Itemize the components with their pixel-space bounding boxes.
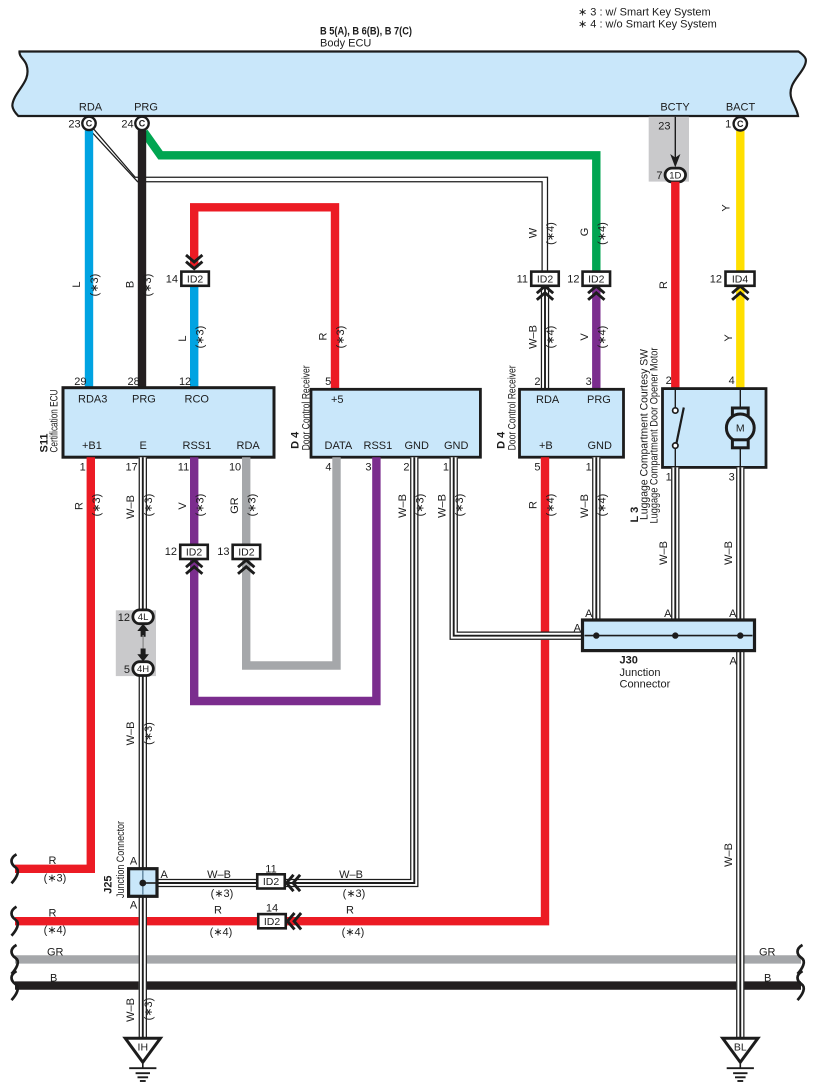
svg-text:W–B: W–B — [723, 541, 735, 565]
svg-text:E: E — [140, 440, 147, 452]
svg-text:ID4: ID4 — [732, 274, 749, 286]
svg-text:(∗3): (∗3) — [89, 274, 101, 297]
svg-text:R: R — [658, 281, 670, 289]
svg-text:14: 14 — [266, 903, 278, 915]
svg-text:3: 3 — [365, 461, 371, 473]
svg-text:Door Control Receiver: Door Control Receiver — [506, 365, 518, 450]
svg-text:W–B: W–B — [125, 998, 137, 1022]
svg-text:1: 1 — [666, 472, 672, 484]
connector ID2 14 (row) — [258, 903, 301, 930]
svg-text:R: R — [49, 907, 57, 919]
connector ID2 12 (mid) — [165, 545, 208, 559]
svg-text:1: 1 — [725, 119, 731, 131]
svg-text:RDA: RDA — [237, 440, 261, 452]
svg-text:3: 3 — [729, 472, 735, 484]
svg-text:∗ 3 : w/ Smart Key System: ∗ 3 : w/ Smart Key System — [578, 7, 711, 19]
svg-text:13: 13 — [217, 546, 229, 558]
wire R (*4) +B label — [528, 494, 558, 517]
svg-text:5: 5 — [325, 376, 331, 388]
svg-text:A: A — [574, 623, 582, 635]
svg-text:A: A — [585, 608, 593, 620]
svg-text:GND: GND — [405, 440, 430, 452]
svg-text:R: R — [73, 502, 85, 510]
svg-text:B: B — [125, 281, 137, 288]
svg-text:4: 4 — [729, 375, 735, 387]
svg-text:Y: Y — [723, 334, 735, 342]
svg-text:2: 2 — [666, 375, 672, 387]
svg-text:28: 28 — [128, 376, 140, 388]
svg-text:Door Control Receiver: Door Control Receiver — [300, 365, 312, 450]
svg-text:29: 29 — [74, 376, 86, 388]
svg-text:(∗4): (∗4) — [44, 925, 67, 937]
junction connector J25 — [103, 821, 169, 912]
svg-text:14: 14 — [166, 274, 178, 286]
wire W-B (*3) E to ground IH — [125, 457, 155, 1038]
svg-text:(∗3): (∗3) — [415, 494, 427, 517]
svg-text:(∗4): (∗4) — [597, 326, 609, 349]
Body ECU connector band — [12, 52, 806, 117]
pin 1 BACT connector C — [725, 101, 755, 130]
svg-text:L: L — [71, 281, 83, 287]
wire L (*3) blue to RDA3 — [71, 130, 101, 388]
wire R (*3) +B1 to left — [12, 457, 104, 884]
svg-text:A: A — [664, 608, 672, 620]
svg-text:(∗3): (∗3) — [194, 494, 206, 517]
wire R (*3) loop ID2 14 to D4 +5 — [186, 207, 347, 389]
wire W-B switch pin1 to J30 — [658, 467, 679, 620]
svg-text:W–B: W–B — [579, 494, 591, 518]
svg-text:PRG: PRG — [134, 101, 158, 113]
wire W-B (*3) GND1 to J30 — [436, 457, 584, 639]
svg-text:A: A — [729, 656, 737, 668]
ground IH — [125, 1038, 160, 1081]
svg-text:Junction Connector: Junction Connector — [115, 821, 127, 898]
connector ID4 12 — [710, 272, 755, 286]
wire Y ID4 12 to motor pin 4 — [723, 279, 749, 389]
bus B black — [12, 971, 804, 1000]
svg-text:1: 1 — [443, 461, 449, 473]
luggage block L3 box — [663, 389, 767, 468]
connector 4L/4H — [116, 610, 156, 676]
svg-text:RSS1: RSS1 — [183, 440, 212, 452]
svg-text:(∗4): (∗4) — [342, 927, 365, 939]
svg-text:R: R — [49, 855, 57, 867]
svg-text:V: V — [579, 333, 591, 341]
ground BL — [723, 1038, 758, 1081]
svg-text:(∗3): (∗3) — [194, 326, 206, 349]
svg-text:12: 12 — [165, 546, 177, 558]
svg-text:1: 1 — [586, 461, 592, 473]
svg-text:J25: J25 — [103, 875, 115, 893]
svg-text:24: 24 — [121, 119, 133, 131]
svg-text:5: 5 — [534, 461, 540, 473]
svg-text:W–B: W–B — [125, 495, 137, 519]
pin 24 PRG connector C — [121, 101, 158, 130]
svg-text:(∗3): (∗3) — [211, 888, 234, 900]
svg-text:11: 11 — [178, 461, 189, 473]
svg-text:RCO: RCO — [185, 394, 210, 406]
svg-text:R: R — [318, 332, 330, 340]
svg-text:2: 2 — [534, 376, 540, 388]
svg-text:W–B: W–B — [207, 869, 231, 881]
wire W (*4) from RDA pin 23 to ID2 11 — [92, 129, 557, 271]
svg-text:1: 1 — [80, 461, 86, 473]
wire L (*3) ID2 14 to RCO — [177, 279, 207, 388]
svg-text:A: A — [161, 869, 169, 881]
svg-text:(∗3): (∗3) — [44, 872, 67, 884]
wire W-B motor pin3 to J30 — [723, 467, 744, 620]
labels R (*4) bus — [210, 904, 365, 938]
svg-text:A: A — [729, 608, 737, 620]
svg-text:12: 12 — [179, 376, 191, 388]
svg-text:BCTY: BCTY — [660, 101, 690, 113]
svg-text:Body ECU: Body ECU — [320, 38, 371, 50]
svg-text:3: 3 — [586, 376, 592, 388]
luggage block labels — [629, 347, 735, 523]
svg-text:(∗3): (∗3) — [91, 494, 103, 517]
pin 23 RDA connector C — [68, 101, 102, 130]
svg-text:W–B: W–B — [339, 869, 363, 881]
svg-text:R: R — [214, 904, 222, 916]
svg-text:ID2: ID2 — [187, 274, 204, 286]
svg-text:(∗3): (∗3) — [246, 494, 258, 517]
wire R BCTY to luggage courtesy switch — [658, 182, 676, 389]
wire W-B (*3) GND2 to J25 — [156, 457, 427, 886]
svg-text:ID2: ID2 — [186, 547, 203, 559]
svg-text:Certification ECU: Certification ECU — [49, 389, 61, 452]
svg-text:W–B: W–B — [658, 541, 670, 565]
svg-text:ID2: ID2 — [588, 274, 605, 286]
svg-text:A: A — [130, 855, 138, 867]
svg-text:RDA: RDA — [536, 394, 560, 406]
svg-text:R: R — [528, 501, 540, 509]
luggage compartment courtesy switch — [673, 389, 684, 468]
pin BCTY label — [660, 101, 690, 113]
svg-text:GND: GND — [444, 440, 469, 452]
svg-text:W–B: W–B — [528, 325, 540, 349]
svg-text:12: 12 — [567, 274, 579, 286]
receiver D4 Door Control Receiver (2) — [495, 365, 623, 473]
svg-text:+B1: +B1 — [82, 440, 102, 452]
bus GR gray — [12, 945, 804, 974]
junction connector J30 — [574, 608, 755, 690]
connector ID2 14 (top) — [166, 272, 209, 286]
svg-text:W–B: W–B — [723, 843, 735, 867]
svg-text:4L: 4L — [138, 612, 149, 623]
svg-text:GR: GR — [759, 946, 776, 958]
svg-text:4H: 4H — [137, 664, 149, 675]
svg-text:7: 7 — [656, 170, 662, 182]
svg-text:+B: +B — [539, 440, 553, 452]
label Body ECU — [320, 26, 412, 50]
svg-text:11: 11 — [517, 274, 528, 286]
svg-text:10: 10 — [229, 461, 241, 473]
svg-text:GR: GR — [229, 497, 241, 514]
svg-text:R: R — [346, 904, 354, 916]
connector ID2 13 (mid) — [217, 545, 260, 559]
labels W-B (*3) row — [207, 869, 365, 900]
svg-text:M: M — [736, 423, 745, 435]
svg-text:RDA: RDA — [79, 101, 103, 113]
svg-text:RSS1: RSS1 — [364, 440, 393, 452]
svg-text:G: G — [579, 228, 591, 237]
svg-text:V: V — [177, 502, 189, 510]
svg-text:Junction: Junction — [620, 667, 661, 679]
svg-text:(∗4): (∗4) — [545, 494, 557, 517]
wire W-B (*4) ID2 11 to RDA — [528, 279, 558, 390]
svg-text:(∗4): (∗4) — [545, 326, 557, 349]
svg-text:B: B — [50, 973, 57, 985]
svg-text:BL: BL — [734, 1042, 747, 1054]
svg-text:W: W — [527, 227, 539, 238]
svg-text:(∗4): (∗4) — [210, 927, 233, 939]
svg-text:(∗4): (∗4) — [545, 222, 557, 245]
svg-text:Luggage Compartment Door Opene: Luggage Compartment Door Opener Motor — [648, 347, 660, 523]
wire B (*3) black to PRG — [125, 130, 155, 388]
svg-text:+5: +5 — [331, 394, 344, 406]
svg-text:ID2: ID2 — [264, 916, 281, 928]
connector ID2 11 (top) — [517, 272, 559, 286]
svg-text:(∗3): (∗3) — [143, 998, 155, 1021]
svg-text:1D: 1D — [669, 170, 681, 181]
svg-text:∗ 4 : w/o Smart Key System: ∗ 4 : w/o Smart Key System — [578, 19, 717, 31]
svg-text:GR: GR — [47, 946, 64, 958]
svg-text:B 5(A), B 6(B), B 7(C): B 5(A), B 6(B), B 7(C) — [320, 26, 412, 38]
wire R (*4) bus to D4 +B — [12, 457, 546, 936]
svg-text:(∗3): (∗3) — [143, 722, 155, 745]
svg-text:2: 2 — [403, 461, 409, 473]
svg-text:W–B: W–B — [397, 494, 409, 518]
connector arrow BCTY 23 to 7 (1D) — [649, 117, 689, 182]
svg-text:GND: GND — [588, 440, 613, 452]
svg-text:(∗3): (∗3) — [343, 888, 366, 900]
wire G (*4) from PRG pin 24 to ID2 12 — [144, 132, 609, 272]
ECU S11 Certification ECU — [38, 376, 274, 473]
svg-text:23: 23 — [658, 121, 670, 133]
svg-text:12: 12 — [118, 612, 130, 624]
svg-text:L: L — [177, 335, 189, 341]
wire V (*3) RSS1 loop — [177, 457, 377, 701]
luggage door opener motor M — [726, 389, 754, 468]
svg-text:B: B — [764, 973, 771, 985]
svg-text:PRG: PRG — [587, 394, 611, 406]
svg-text:(∗3): (∗3) — [143, 494, 155, 517]
wire W-B J30 to ground BL — [723, 651, 744, 1039]
wire GR (*3) RDA loop — [229, 457, 337, 665]
wire Y BACT to ID4 12 — [720, 131, 740, 272]
svg-text:ID2: ID2 — [263, 876, 280, 888]
svg-text:17: 17 — [126, 461, 138, 473]
wire V (*4) ID2 12 to PRG — [579, 279, 609, 390]
svg-text:DATA: DATA — [325, 440, 353, 452]
svg-text:Y: Y — [720, 204, 732, 212]
svg-text:4: 4 — [325, 461, 331, 473]
svg-text:23: 23 — [68, 119, 80, 131]
svg-text:C: C — [737, 119, 744, 129]
svg-text:5: 5 — [124, 664, 130, 676]
receiver D4 Door Control Receiver (1) — [289, 365, 480, 473]
note legend smart key — [578, 7, 717, 31]
svg-text:12: 12 — [710, 274, 722, 286]
svg-text:ID2: ID2 — [537, 274, 554, 286]
svg-text:(∗4): (∗4) — [597, 222, 609, 245]
svg-text:J30: J30 — [620, 655, 638, 667]
connector ID2 11 (row) — [257, 864, 300, 892]
svg-text:(∗3): (∗3) — [454, 494, 466, 517]
svg-text:ID2: ID2 — [238, 547, 255, 559]
connector ID2 12 (top) — [567, 272, 610, 286]
svg-text:C: C — [139, 119, 146, 129]
svg-text:Connector: Connector — [620, 678, 671, 690]
svg-text:(∗3): (∗3) — [142, 274, 154, 297]
svg-text:C: C — [86, 119, 93, 129]
svg-text:PRG: PRG — [132, 394, 156, 406]
svg-text:(∗3): (∗3) — [335, 326, 347, 349]
svg-text:BACT: BACT — [726, 101, 756, 113]
svg-text:W–B: W–B — [436, 494, 448, 518]
svg-text:11: 11 — [265, 864, 276, 876]
svg-text:W–B: W–B — [125, 722, 137, 746]
wire W-B (*4) GND to J30 — [579, 457, 609, 620]
svg-text:RDA3: RDA3 — [78, 394, 107, 406]
svg-text:(∗4): (∗4) — [597, 494, 609, 517]
svg-text:A: A — [130, 900, 138, 912]
svg-text:IH: IH — [138, 1042, 149, 1054]
